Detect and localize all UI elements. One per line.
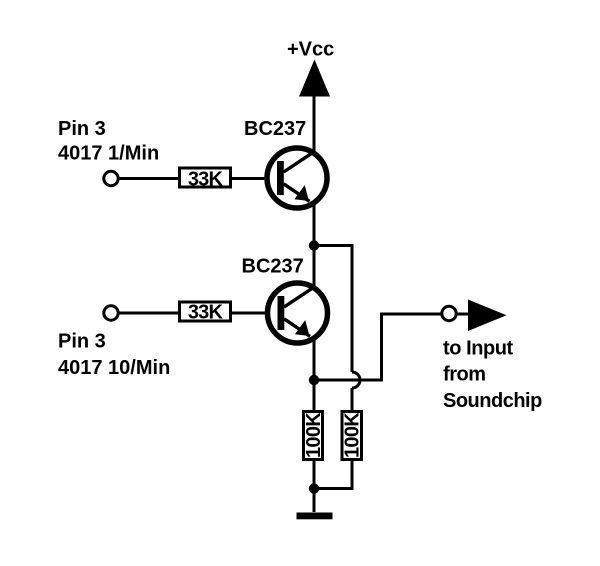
svg-text:BC237: BC237	[244, 118, 306, 140]
svg-text:33K: 33K	[188, 169, 224, 191]
svg-text:4017 1/Min: 4017 1/Min	[58, 143, 159, 165]
svg-text:33K: 33K	[188, 302, 224, 324]
svg-text:from: from	[443, 364, 486, 386]
svg-text:4017 10/Min: 4017 10/Min	[58, 357, 170, 379]
svg-text:Soundchip: Soundchip	[443, 390, 542, 412]
svg-text:Pin 3: Pin 3	[58, 118, 106, 140]
svg-text:BC237: BC237	[242, 256, 304, 278]
svg-text:to Input: to Input	[443, 338, 513, 360]
svg-text:+Vcc: +Vcc	[287, 39, 334, 61]
svg-text:Pin 3: Pin 3	[58, 331, 106, 353]
svg-text:100K: 100K	[303, 412, 325, 458]
svg-text:100K: 100K	[342, 412, 364, 458]
